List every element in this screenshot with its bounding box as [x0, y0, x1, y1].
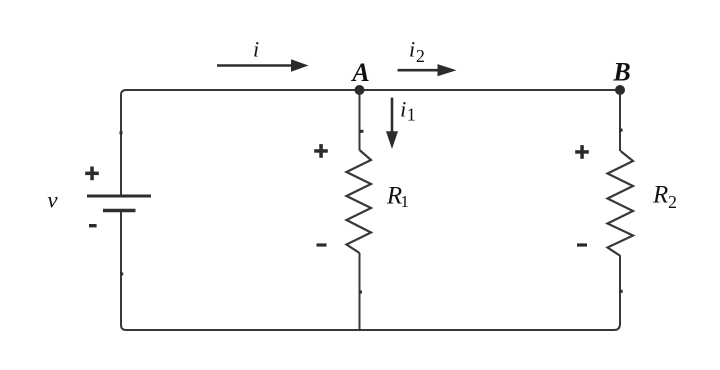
svg-text:i: i: [409, 37, 415, 62]
svg-text:1: 1: [407, 105, 416, 125]
svg-text:i: i: [253, 37, 259, 62]
svg-text:A: A: [350, 58, 369, 87]
svg-text:2: 2: [416, 46, 425, 66]
svg-text:v: v: [47, 188, 58, 213]
svg-text:i: i: [400, 97, 406, 122]
svg-text:B: B: [612, 58, 630, 87]
svg-text:R: R: [652, 182, 668, 209]
svg-text:2: 2: [668, 192, 677, 212]
svg-text:1: 1: [401, 192, 410, 211]
